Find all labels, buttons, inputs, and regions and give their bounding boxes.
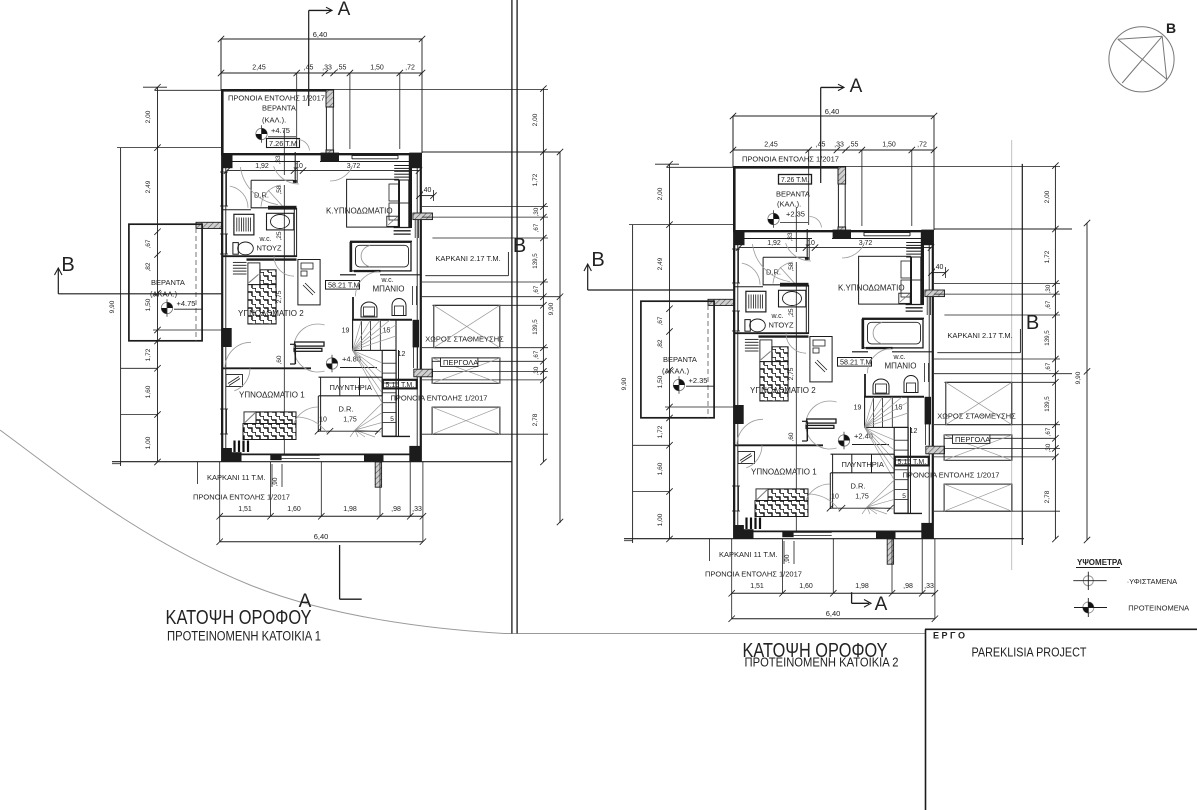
svg-text:3,72: 3,72 <box>347 163 361 170</box>
door leaves center <box>807 419 836 423</box>
right wall windows <box>925 424 927 445</box>
boundary line horizontal <box>504 633 925 635</box>
door arc D.R. <box>773 262 793 284</box>
left dim ticks extensions <box>629 224 734 226</box>
sink w.c. <box>267 213 294 230</box>
bed bedroom 2 (hatched) <box>260 270 276 285</box>
interior dim line 1,92 / ,10 / 3,72 <box>227 170 419 172</box>
left dim ticks extensions <box>117 147 222 149</box>
svg-text:,67: ,67 <box>657 316 664 325</box>
level symbol <box>326 358 337 369</box>
svg-text:(ΑΚΑΛ.): (ΑΚΑΛ.) <box>662 367 690 376</box>
svg-text:,90: ,90 <box>272 477 279 486</box>
svg-text:1,92: 1,92 <box>255 163 269 170</box>
title block ERGO <box>925 628 1197 630</box>
hatched ledge left <box>196 222 222 228</box>
svg-text:B: B <box>513 235 526 257</box>
dim extension lines <box>296 73 298 148</box>
level symbol <box>673 379 684 390</box>
closet column <box>400 180 409 228</box>
svg-text:ΧΩΡΟΣ ΣΤΑΘΜΕΥΣΗΣ: ΧΩΡΟΣ ΣΤΑΘΜΕΥΣΗΣ <box>937 412 1016 421</box>
side table bedroom 1 <box>738 452 755 464</box>
bedroom bed (master) <box>859 256 911 304</box>
svg-text:1,50: 1,50 <box>657 375 664 388</box>
bottom exterior wall <box>222 453 421 455</box>
svg-text:9,90: 9,90 <box>548 302 555 315</box>
svg-text:A: A <box>875 594 888 615</box>
left exterior wall <box>733 231 735 539</box>
svg-text:,33: ,33 <box>322 65 332 72</box>
svg-text:1,72: 1,72 <box>532 173 539 186</box>
svg-text:1,72: 1,72 <box>1044 250 1051 263</box>
svg-text:1,98: 1,98 <box>855 583 869 590</box>
svg-text:+4.80: +4.80 <box>342 355 361 364</box>
hatched pier below bottom wall <box>887 539 893 564</box>
svg-text:2,75: 2,75 <box>788 367 795 380</box>
toilet w.c. <box>233 243 238 255</box>
boundary arc road <box>0 430 504 634</box>
stairs right flight <box>894 427 908 513</box>
parking box <box>946 382 1012 424</box>
svg-text:2,45: 2,45 <box>764 142 778 149</box>
svg-text:,58: ,58 <box>276 185 283 194</box>
wall bedroom1 / bedroom2 <box>734 444 823 446</box>
side steps <box>233 262 247 274</box>
pillow bedroom 2 <box>760 340 772 362</box>
svg-text:1,50: 1,50 <box>370 65 384 72</box>
right wall windows <box>413 347 415 368</box>
svg-text:ΜΠΑΝΙΟ: ΜΠΑΝΙΟ <box>373 285 405 294</box>
svg-text:,82: ,82 <box>657 339 664 348</box>
closet column <box>912 257 921 305</box>
svg-text:w.c.: w.c. <box>893 354 906 361</box>
svg-text:,58: ,58 <box>788 262 795 271</box>
legend proposed symbol <box>1083 602 1094 613</box>
svg-text:ΠΕΡΓΟΛΑ: ΠΕΡΓΟΛΑ <box>443 358 478 367</box>
bars below bed <box>747 518 761 530</box>
parking box <box>434 305 500 347</box>
svg-text:3,72: 3,72 <box>859 240 873 247</box>
svg-text:ΠΡΟΤΕΙΝΟΜΕΝΑ: ΠΡΟΤΕΙΝΟΜΕΝΑ <box>1128 604 1189 613</box>
svg-text:9,90: 9,90 <box>621 377 628 390</box>
svg-text:,10: ,10 <box>805 240 815 247</box>
section A marker top <box>821 86 839 88</box>
hatched ledge right (karkani) <box>925 290 945 297</box>
dim ,10 1,75 <box>830 507 890 509</box>
karkani edge <box>197 462 199 484</box>
veranda door jamb <box>294 152 296 183</box>
sink bathroom <box>904 376 918 393</box>
svg-text:ΠΡΟΝΟΙΑ ΕΝΤΟΛΗΣ 1/2017: ΠΡΟΝΟΙΑ ΕΝΤΟΛΗΣ 1/2017 <box>903 471 1000 480</box>
svg-text:ΠΛΥΝΤΗΡΙΑ: ΠΛΥΝΤΗΡΙΑ <box>842 460 884 469</box>
stair bottom wall <box>894 512 922 514</box>
svg-text:,67: ,67 <box>533 223 540 232</box>
svg-text:1,72: 1,72 <box>145 348 152 361</box>
svg-text:5.15 Τ.Μ.: 5.15 Τ.Μ. <box>898 459 927 466</box>
left veranda (akal) <box>641 301 714 418</box>
lower X box <box>944 484 1012 511</box>
bottom dim row 1,51/1,60/1,98/,98/,33 <box>732 592 935 594</box>
svg-text:ΥΠΝΟΔΩΜΑΤΙΟ 2: ΥΠΝΟΔΩΜΑΤΙΟ 2 <box>238 309 304 318</box>
top wall inner line <box>738 238 812 240</box>
hall label 58.21 <box>838 358 872 367</box>
house plan 1 <box>109 0 560 545</box>
level symbol <box>161 302 172 313</box>
top extension line left <box>667 166 733 168</box>
left dim line inner <box>157 87 159 462</box>
svg-text:2,49: 2,49 <box>145 180 152 193</box>
closet rungs top <box>394 166 409 181</box>
svg-text:,33: ,33 <box>924 583 934 590</box>
door leaves center <box>295 342 324 346</box>
svg-text:ΒΕΡΑΝΤΑ: ΒΕΡΑΝΤΑ <box>776 190 810 199</box>
svg-text:19: 19 <box>854 405 862 412</box>
lower X box <box>432 407 500 434</box>
svg-text:139,5: 139,5 <box>1044 330 1051 346</box>
left exterior wall <box>221 154 223 462</box>
svg-text:,25: ,25 <box>276 231 283 240</box>
svg-text:ΥΠΝΟΔΩΜΑΤΙΟ 1: ΥΠΝΟΔΩΜΑΤΙΟ 1 <box>239 390 305 399</box>
left dim line inner <box>669 164 671 539</box>
svg-text:B: B <box>591 249 604 271</box>
pergola box <box>944 435 1012 460</box>
veranda top walls <box>733 166 846 169</box>
bottom dim 6,40 <box>732 618 935 620</box>
desk bedroom 2 <box>298 260 320 305</box>
closet rungs bottom <box>394 228 411 235</box>
svg-text:,82: ,82 <box>145 262 152 271</box>
w.c. ntouz right wall <box>293 208 295 257</box>
closet band D.R. <box>763 256 805 258</box>
svg-text:PAREKLISIA PROJECT: PAREKLISIA PROJECT <box>972 646 1087 660</box>
svg-text:ΒΕΡΑΝΤΑ: ΒΕΡΑΝΤΑ <box>151 278 185 287</box>
top extension line left <box>155 89 221 91</box>
svg-text:2,00: 2,00 <box>145 110 152 123</box>
svg-text:ΠΕΡΓΟΛΑ: ΠΕΡΓΟΛΑ <box>955 435 990 444</box>
bathroom walls <box>862 317 924 319</box>
svg-text:,67: ,67 <box>145 239 152 248</box>
svg-text:ΠΡΟΝΟΙΑ ΕΝΤΟΛΗΣ 1/2017: ΠΡΟΝΟΙΑ ΕΝΤΟΛΗΣ 1/2017 <box>705 570 802 579</box>
svg-text:ΠΡΟΝΟΙΑ ΕΝΤΟΛΗΣ 1/2017: ΠΡΟΝΟΙΑ ΕΝΤΟΛΗΣ 1/2017 <box>193 493 290 502</box>
svg-text:7.26 Τ.Μ.: 7.26 Τ.Μ. <box>781 177 809 184</box>
svg-text:+4.75: +4.75 <box>177 299 196 308</box>
hatched ledge right (karkani) <box>413 213 433 220</box>
svg-text:(ΚΑΛ.).: (ΚΑΛ.). <box>262 116 286 125</box>
svg-text:,72: ,72 <box>405 65 415 72</box>
bottom dim 6,40 <box>220 541 423 543</box>
svg-text:B: B <box>61 254 74 276</box>
pergola box <box>432 358 500 383</box>
svg-text:ΥΨΟΜΕΤΡΑ: ΥΨΟΜΕΤΡΑ <box>1077 558 1123 567</box>
hatched ledge right (pergola) <box>414 369 433 377</box>
bathroom walls <box>350 240 412 242</box>
desk bedroom 2 <box>810 337 832 382</box>
door arc bathroom <box>868 349 892 374</box>
door arc bathroom <box>356 272 380 297</box>
svg-text:ΠΡΟΝΟΙΑ ΕΝΤΟΛΗΣ 1/2017: ΠΡΟΝΟΙΑ ΕΝΤΟΛΗΣ 1/2017 <box>391 394 488 403</box>
svg-text:,55: ,55 <box>337 65 347 72</box>
door arc bottom <box>806 484 830 501</box>
svg-text:+2.40: +2.40 <box>854 432 873 441</box>
svg-text:ΧΩΡΟΣ ΣΤΑΘΜΕΥΣΗΣ: ΧΩΡΟΣ ΣΤΑΘΜΕΥΣΗΣ <box>425 335 504 344</box>
svg-text:,33: ,33 <box>412 506 422 513</box>
stairs right flight <box>382 350 396 436</box>
section A marker plan1 bottom <box>339 545 341 599</box>
svg-text:(ΚΑΛ.).: (ΚΑΛ.). <box>777 200 801 209</box>
dim ,40 <box>419 195 433 197</box>
w.c. ntouz bottom wall <box>222 255 297 257</box>
svg-text:,67: ,67 <box>1045 362 1052 371</box>
bathroom window right <box>924 363 926 382</box>
svg-text:ΠΡΟΤΕΙΝΟΜΕΝΗ ΚΑΤΟΙΚΙΑ 2: ΠΡΟΤΕΙΝΟΜΕΝΗ ΚΑΤΟΙΚΙΑ 2 <box>745 656 899 670</box>
svg-text:w.c.: w.c. <box>259 236 272 243</box>
laundry room <box>831 453 895 455</box>
interior dim line 1,92 / ,10 / 3,72 <box>739 247 931 249</box>
dim extension lines <box>808 150 810 225</box>
svg-text:,98: ,98 <box>391 506 401 513</box>
svg-text:,72: ,72 <box>917 142 927 149</box>
closet rungs top <box>906 243 921 258</box>
bars below bed <box>235 441 249 453</box>
bottom exterior wall <box>734 530 933 532</box>
door arc D.R. <box>261 185 281 207</box>
wall D.R. / w.c. <box>251 207 297 209</box>
hall partition <box>317 396 319 432</box>
bathtub <box>864 319 924 348</box>
double door circle center <box>806 401 837 449</box>
svg-text:ΝΤΟΥΖ: ΝΤΟΥΖ <box>769 321 794 330</box>
svg-text:1,60: 1,60 <box>145 385 152 398</box>
svg-text:1,51: 1,51 <box>750 583 764 590</box>
hatched ledge left <box>708 299 734 305</box>
svg-text:ΒΕΡΑΝΤΑ: ΒΕΡΑΝΤΑ <box>663 355 697 364</box>
svg-text:w.c.: w.c. <box>381 277 394 284</box>
svg-text:,33: ,33 <box>275 155 282 164</box>
right outer dim 9,90 plan1 <box>559 152 561 523</box>
right dim column <box>542 89 544 462</box>
svg-text:1,60: 1,60 <box>799 583 813 590</box>
svg-text:5: 5 <box>902 493 906 500</box>
laundry room <box>319 376 383 378</box>
wall D.R. / w.c. <box>763 284 809 286</box>
dim ,40 <box>931 272 945 274</box>
svg-text:ΜΠΑΝΙΟ: ΜΠΑΝΙΟ <box>885 362 917 371</box>
left wall windows <box>732 249 734 283</box>
svg-text:D.R.: D.R. <box>851 482 866 491</box>
svg-text:2,00: 2,00 <box>1044 190 1051 203</box>
svg-text:+2.35: +2.35 <box>786 210 805 219</box>
toilet bathroom <box>873 379 889 394</box>
plot line pair between plans <box>511 0 513 634</box>
svg-text:1,00: 1,00 <box>657 513 664 526</box>
left veranda (akal) <box>129 224 202 341</box>
box 5.15 T.M. <box>383 380 417 389</box>
svg-text:9,90: 9,90 <box>109 300 116 313</box>
interior dim vertical (2,75 etc) <box>283 185 285 455</box>
right exterior wall <box>420 154 422 462</box>
karkani edge <box>709 539 711 561</box>
svg-text:1,50: 1,50 <box>145 298 152 311</box>
svg-text:58.21 Τ.Μ: 58.21 Τ.Μ <box>328 281 359 290</box>
svg-text:Β: Β <box>1166 20 1176 36</box>
svg-text:,60: ,60 <box>788 432 795 441</box>
house plan 2 <box>621 76 1072 622</box>
svg-text:,67: ,67 <box>1045 427 1052 436</box>
svg-text:2,78: 2,78 <box>532 413 539 426</box>
svg-text:,33: ,33 <box>834 142 844 149</box>
bed bedroom 1 (hatched) <box>256 412 296 425</box>
w.c. ntouz right wall <box>805 285 807 334</box>
stairs upper flight <box>865 397 908 428</box>
left dim line outer 9,90 <box>632 225 634 543</box>
hall label 58.21 <box>326 281 360 290</box>
closet right wall bar <box>921 231 924 305</box>
svg-text:,67: ,67 <box>1045 300 1052 309</box>
plot lines right of plan 2 <box>1011 140 1013 570</box>
svg-text:9,90: 9,90 <box>1075 371 1082 384</box>
washing machine <box>234 214 254 235</box>
veranda hatched column <box>326 90 334 107</box>
svg-text:ΠΡΟΝΟΙΑ ΕΝΤΟΛΗΣ 1/2017: ΠΡΟΝΟΙΑ ΕΝΤΟΛΗΣ 1/2017 <box>742 155 839 164</box>
section A marker top <box>309 9 327 11</box>
svg-text:1,75: 1,75 <box>343 417 357 424</box>
dimension row 2,45/,45/,33/,55/1,50/,72 <box>733 149 934 151</box>
svg-text:139,5: 139,5 <box>532 319 539 335</box>
svg-text:1,98: 1,98 <box>343 506 357 513</box>
top wall inner line <box>226 161 300 163</box>
bottom dim row 1,51/1,60/1,98/,98/,33 <box>220 515 423 517</box>
closet band D.R. <box>251 179 293 181</box>
svg-text:2,75: 2,75 <box>276 290 283 303</box>
svg-text:6,40: 6,40 <box>825 107 840 116</box>
svg-text:B: B <box>1026 312 1039 334</box>
svg-text:ΚΑΤΟΨΗ ΟΡΟΦΟΥ: ΚΑΤΟΨΗ ΟΡΟΦΟΥ <box>166 607 312 629</box>
double door circle center <box>294 324 325 372</box>
svg-text:58.21 Τ.Μ: 58.21 Τ.Μ <box>840 358 871 367</box>
svg-text:ΚΑΡΚΑΝΙ 2.17 Τ.Μ.: ΚΑΡΚΑΝΙ 2.17 Τ.Μ. <box>947 331 1012 340</box>
bathtub <box>352 242 412 271</box>
svg-text:6,40: 6,40 <box>313 30 328 39</box>
svg-text:Κ.ΥΠΝΟΔΩΜΑΤΙΟ: Κ.ΥΠΝΟΔΩΜΑΤΙΟ <box>838 284 905 293</box>
left wall windows <box>220 172 222 206</box>
right annex lines <box>846 166 1060 168</box>
svg-text:,30: ,30 <box>1045 443 1052 452</box>
svg-text:7.26 Τ.Μ: 7.26 Τ.Μ <box>269 141 297 148</box>
svg-text:,67: ,67 <box>533 350 540 359</box>
side steps <box>745 339 759 351</box>
svg-text:,40: ,40 <box>422 187 432 194</box>
sink bathroom <box>392 299 406 316</box>
right exterior wall <box>932 231 934 539</box>
w.c. ntouz bottom wall <box>734 332 809 334</box>
svg-text:,33: ,33 <box>787 232 794 241</box>
stair landing wall <box>759 335 809 337</box>
toilet w.c. <box>745 320 750 332</box>
svg-text:,55: ,55 <box>849 142 859 149</box>
svg-text:2,00: 2,00 <box>657 187 664 200</box>
svg-text:5: 5 <box>390 416 394 423</box>
bed bedroom 2 (hatched) <box>772 347 788 362</box>
bed bedroom 1 (hatched) <box>768 489 808 502</box>
svg-text:2,78: 2,78 <box>1044 490 1051 503</box>
svg-text:139,5: 139,5 <box>532 253 539 269</box>
entry arcs top <box>786 243 811 261</box>
svg-text:·ΥΦΙΣΤΑΜΕΝΑ: ·ΥΦΙΣΤΑΜΕΝΑ <box>1127 577 1177 586</box>
top exterior wall <box>221 153 422 155</box>
svg-text:ΒΕΡΑΝΤΑ: ΒΕΡΑΝΤΑ <box>262 104 296 113</box>
svg-text:,98: ,98 <box>903 583 913 590</box>
svg-text:,25: ,25 <box>788 308 795 317</box>
svg-text:2,00: 2,00 <box>532 113 539 126</box>
svg-text:1,51: 1,51 <box>238 506 252 513</box>
svg-text:ΚΑΡΚΑΝΙ 11 Τ.Μ.: ΚΑΡΚΑΝΙ 11 Τ.Μ. <box>719 550 778 559</box>
svg-text:Ε Ρ Γ Ο: Ε Ρ Γ Ο <box>933 631 965 641</box>
level symbol <box>256 128 267 139</box>
pillow bedroom 1 <box>756 489 768 501</box>
bottom dim extensions <box>731 539 733 619</box>
svg-text:ΥΠΝΟΔΩΜΑΤΙΟ 1: ΥΠΝΟΔΩΜΑΤΙΟ 1 <box>751 467 817 476</box>
hall partition <box>829 473 831 509</box>
sink w.c. <box>779 290 806 307</box>
left dim line outer 9,90 <box>120 148 122 466</box>
bathroom window right <box>412 286 414 305</box>
washing machine <box>746 291 766 312</box>
hatched ledge right (pergola) <box>926 446 945 454</box>
svg-text:1,00: 1,00 <box>145 436 152 449</box>
entry arc veranda band <box>240 167 278 205</box>
box 5.15 T.M. <box>895 457 929 466</box>
stairs upper flight <box>353 320 396 351</box>
svg-text:1,92: 1,92 <box>767 240 781 247</box>
section A marker plan2 bottom <box>851 592 853 603</box>
level symbol <box>838 435 849 446</box>
svg-text:A: A <box>850 76 863 97</box>
top wall window 3,72 <box>864 232 910 234</box>
closet rungs bottom <box>906 305 923 312</box>
dimension 6,40 top <box>733 115 934 117</box>
section B marker plan1 left <box>57 269 59 294</box>
side table bedroom 1 <box>226 375 243 387</box>
svg-text:6,40: 6,40 <box>314 532 329 541</box>
door arc bottom <box>294 407 318 424</box>
stair bottom wall <box>382 435 410 437</box>
svg-text:Κ.ΥΠΝΟΔΩΜΑΤΙΟ: Κ.ΥΠΝΟΔΩΜΑΤΙΟ <box>326 207 393 216</box>
dimension 6,40 top <box>221 38 422 40</box>
dimension row 2,45/,45/,33/,55/1,50/,72 <box>221 72 422 74</box>
bottom wall window <box>282 454 320 456</box>
svg-text:1,50: 1,50 <box>882 142 896 149</box>
pillow bedroom 2 <box>248 263 260 285</box>
right outer dim 9,90 plan2 <box>1086 223 1088 540</box>
entry arcs top <box>274 166 299 184</box>
svg-text:,67: ,67 <box>533 285 540 294</box>
svg-text:,30: ,30 <box>1045 284 1052 293</box>
bedside notch <box>387 216 398 226</box>
svg-text:19: 19 <box>342 328 350 335</box>
svg-text:ΥΠΝΟΔΩΜΑΤΙΟ 2: ΥΠΝΟΔΩΜΑΤΙΟ 2 <box>750 386 816 395</box>
stair fan lines <box>350 320 396 437</box>
entry arc veranda band <box>752 244 790 282</box>
svg-text:6,40: 6,40 <box>826 609 841 618</box>
wall stubs center <box>806 421 808 441</box>
level symbol <box>768 213 779 224</box>
svg-text:ΠΡΟΝΟΙΑ ΕΝΤΟΛΗΣ 1/2017: ΠΡΟΝΟΙΑ ΕΝΤΟΛΗΣ 1/2017 <box>228 94 325 103</box>
top wall window 3,72 <box>352 155 398 157</box>
svg-text:ΠΛΥΝΤΗΡΙΑ: ΠΛΥΝΤΗΡΙΑ <box>330 383 372 392</box>
section B marker plan2 left <box>587 265 589 290</box>
svg-text:1,60: 1,60 <box>657 462 664 475</box>
svg-text:,10: ,10 <box>293 163 303 170</box>
